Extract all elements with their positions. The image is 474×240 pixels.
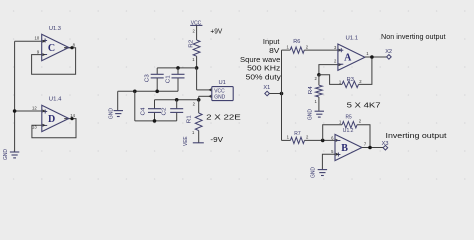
svg-text:VEE: VEE [183,136,189,146]
svg-text:C: C [48,43,55,54]
svg-text:X1: X1 [263,85,270,91]
svg-text:X2: X2 [385,49,392,55]
svg-text:GND: GND [308,109,314,120]
svg-text:X3: X3 [382,141,389,147]
svg-text:D: D [48,114,55,125]
svg-text:8V: 8V [269,46,279,55]
svg-text:A: A [344,53,352,64]
svg-text:Inverting output: Inverting output [386,131,447,140]
svg-text:R6: R6 [293,39,300,45]
svg-text:C4: C4 [140,108,146,116]
svg-text:12: 12 [32,105,37,110]
svg-text:10: 10 [35,36,40,41]
svg-text:50% duty: 50% duty [246,72,281,81]
svg-text:C1: C1 [165,75,171,83]
svg-text:+9V: +9V [210,26,222,35]
svg-text:GND: GND [3,149,9,160]
svg-text:2 X 22E: 2 X 22E [206,112,241,121]
svg-text:U1.1: U1.1 [346,35,359,41]
svg-text:R7: R7 [294,131,300,137]
svg-text:R2: R2 [188,40,194,48]
svg-text:U1: U1 [218,80,225,86]
svg-text:U1.2: U1.2 [343,128,354,134]
svg-text:B: B [341,143,348,154]
svg-text:Non inverting output: Non inverting output [381,32,446,41]
svg-text:Input: Input [263,37,280,46]
svg-text:R5: R5 [346,115,352,121]
svg-text:13: 13 [32,125,37,130]
svg-text:GND: GND [310,167,316,178]
svg-text:R3: R3 [347,77,354,83]
svg-text:U1.3: U1.3 [49,26,61,32]
svg-text:C3: C3 [145,74,151,82]
svg-text:GND: GND [109,108,115,119]
svg-text:5 X 4K7: 5 X 4K7 [347,100,381,109]
svg-text:C2: C2 [162,108,168,116]
svg-text:-9V: -9V [210,135,223,144]
svg-text:R4: R4 [308,86,314,94]
svg-text:U1.4: U1.4 [49,96,62,102]
svg-text:R1: R1 [186,115,192,123]
svg-text:500 KHz: 500 KHz [247,63,281,72]
svg-text:GND: GND [214,94,225,100]
svg-text:14: 14 [70,113,75,118]
